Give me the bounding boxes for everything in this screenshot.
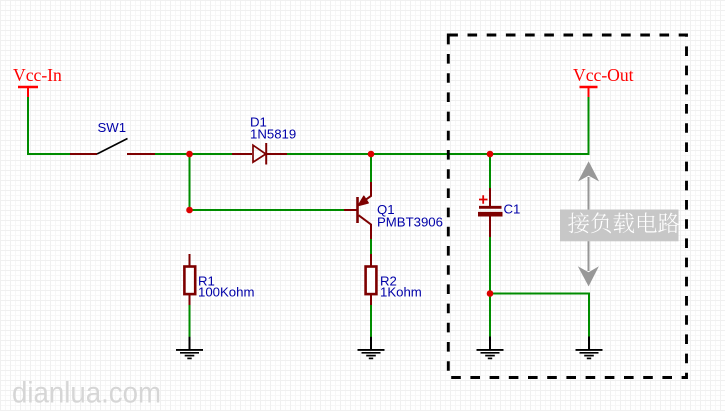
power port Vcc-In pin <box>27 87 29 97</box>
junction node D (R1 branch / Q1 base wire) <box>186 207 193 214</box>
ground symbol under R2 <box>358 337 385 359</box>
wire Vcc-In to SW1 <box>28 97 71 154</box>
load label box <box>560 210 679 242</box>
wire C1 to bottom node <box>489 237 491 294</box>
label text char 电 <box>638 213 657 233</box>
load arrow down <box>588 241 590 271</box>
resistor R2 bottom pin <box>370 295 372 306</box>
switch SW1 blade <box>97 139 128 155</box>
capacitor C1 top pin <box>489 188 491 206</box>
capacitor C1 bottom pin <box>489 217 491 238</box>
capacitor C1 bottom plate <box>478 212 503 217</box>
load arrow up <box>578 161 599 181</box>
svg-text:100Kohm: 100Kohm <box>198 285 254 300</box>
svg-text:Vcc-In: Vcc-In <box>13 65 62 85</box>
junction node C (rail / C1) <box>487 151 494 158</box>
label text char 路 <box>658 213 679 234</box>
power port Vcc-Out pin <box>588 87 590 97</box>
wire node E to ground <box>489 294 491 338</box>
junction node A (rail / R1 branch) <box>186 151 193 158</box>
switch SW1 pin 1 <box>70 153 97 155</box>
diode D1 cathode pin <box>266 153 287 155</box>
capacitor C1 plus sign <box>479 195 488 203</box>
resistor R1 body <box>184 267 195 295</box>
diode D1 triangle <box>253 145 266 162</box>
resistor R2 body <box>366 267 377 295</box>
label text char 载 <box>613 213 634 234</box>
svg-text:1N5819: 1N5819 <box>250 126 296 141</box>
switch SW1 pin 2 <box>127 153 155 155</box>
svg-text:Vcc-Out: Vcc-Out <box>573 65 634 85</box>
power port Vcc-In bar <box>18 86 38 89</box>
transistor Q1 base pin <box>344 209 358 211</box>
wire rail to Q1 emitter <box>370 154 372 182</box>
ground symbol load return <box>576 337 603 359</box>
svg-text:SW1: SW1 <box>98 120 127 135</box>
wire SW1 to D1 <box>155 153 232 155</box>
wire D1 to Vcc-Out rail <box>287 97 589 154</box>
label text char 接 <box>568 213 589 234</box>
ground symbol under C1 <box>477 337 504 359</box>
svg-text:dianlua.com: dianlua.com <box>12 377 161 410</box>
diode D1 anode pin <box>232 153 252 155</box>
junction node E (C1 / load return) <box>487 290 494 297</box>
power port Vcc-Out bar <box>580 86 598 89</box>
transistor Q1 emitter pin <box>359 182 372 205</box>
wire Q1 collector to R2 <box>370 239 372 254</box>
wire R2 to ground <box>370 305 372 338</box>
resistor R1 bottom pin <box>189 295 191 306</box>
wire node C to C1 <box>489 154 491 188</box>
wire load return rail <box>490 294 589 338</box>
ground symbol under R1 <box>176 337 203 359</box>
svg-text:1Kohm: 1Kohm <box>380 285 422 300</box>
wire R1 to ground <box>189 305 191 338</box>
svg-text:C1: C1 <box>504 202 521 217</box>
junction node B (rail / Q1 emitter) <box>368 151 375 158</box>
transistor Q1 emitter arrow (PNP) <box>358 196 368 205</box>
capacitor C1 top plate <box>479 206 502 209</box>
wire base of Q1 <box>190 209 345 211</box>
label text char 负 <box>591 212 611 233</box>
resistor R1 top pin <box>189 254 191 266</box>
wire node A to base wire junction <box>189 154 191 210</box>
svg-text:PMBT3906: PMBT3906 <box>377 214 443 229</box>
dashed load box <box>448 35 686 378</box>
resistor R2 top pin <box>370 254 372 266</box>
diode D1 cathode bar <box>265 143 267 165</box>
transistor Q1 base bar <box>356 197 359 223</box>
transistor Q1 collector pin <box>359 215 372 239</box>
